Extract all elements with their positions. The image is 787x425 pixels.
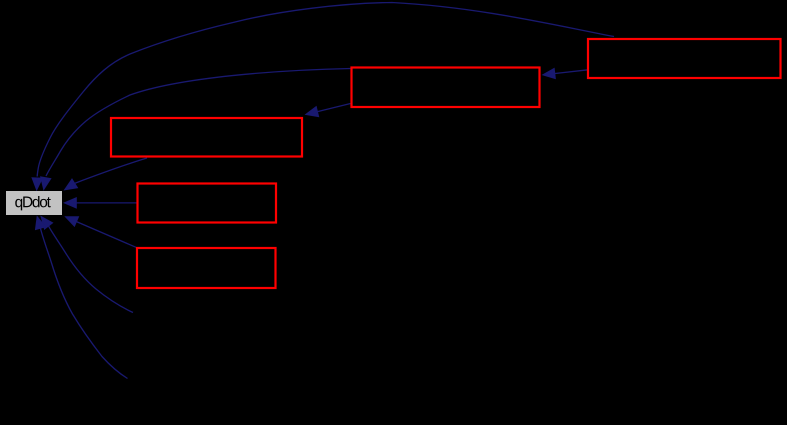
- label qDdot: [15, 196, 51, 210]
- red box B (upper middle): [352, 68, 540, 108]
- arrowhead arc1 at qDdot top-left: [31, 177, 43, 191]
- node qDdot (current node, grey): [6, 191, 62, 215]
- arrowhead C->qDdot: [64, 178, 79, 190]
- arrowhead D->qDdot: [63, 197, 77, 209]
- arrowhead B->C: [305, 106, 320, 117]
- edge: box A -> box B: [554, 70, 588, 74]
- red box C: [111, 118, 302, 157]
- edge: box E -> qDdot: [77, 222, 137, 248]
- arrowhead A->B: [542, 68, 556, 80]
- edge: box B -> box C: [316, 104, 351, 113]
- edge: bottom hidden node 2 -> qDdot: [41, 228, 128, 378]
- edge arc2: middle red box -> qDdot: [46, 69, 351, 177]
- edge: box D -> qDdot (horizontal): [77, 202, 137, 204]
- arrowhead arc2 at qDdot top: [40, 176, 52, 191]
- arrowhead E->qDdot: [64, 216, 79, 227]
- red box E: [137, 248, 276, 288]
- arrowhead bottom curve 2: [35, 215, 46, 230]
- edge arc1: top red box -> qDdot (big outer arc): [37, 3, 614, 177]
- red box A (top right): [588, 39, 781, 78]
- edge: box C -> qDdot: [75, 158, 147, 183]
- edge: bottom hidden node 1 -> qDdot: [49, 226, 133, 312]
- red box D: [138, 184, 277, 223]
- arrowhead bottom curve 1: [40, 216, 53, 231]
